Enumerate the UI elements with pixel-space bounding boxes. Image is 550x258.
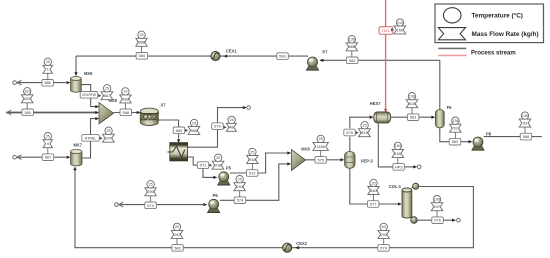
arrowhead into COL-1 <box>398 202 402 205</box>
svg-text:292: 292 <box>174 233 180 237</box>
svg-text:584: 584 <box>139 53 146 58</box>
svg-text:580: 580 <box>452 139 459 144</box>
wire F6 vapor riser x=440 <box>439 60 441 110</box>
arrowhead into MX7 bottom <box>73 166 76 170</box>
svg-text:HEX7: HEX7 <box>370 101 381 106</box>
stream box HP3 <box>393 164 405 171</box>
svg-text:247: 247 <box>434 205 440 209</box>
arrowhead into MX6 top <box>74 72 77 76</box>
svg-text:25: 25 <box>105 87 109 91</box>
wire top recycle left segment y=56 <box>76 55 308 57</box>
arrowhead stream 576 exit <box>452 219 456 222</box>
svg-text:918: 918 <box>215 164 221 168</box>
svg-text:MX6: MX6 <box>84 71 93 76</box>
wire COL-1 distillate recycle <box>75 170 473 248</box>
arrowhead into HEX7 <box>370 116 374 119</box>
wire SEP-3 bottoms stream 577 <box>350 168 399 204</box>
stream box 586 product <box>520 133 532 140</box>
stream box 587 <box>42 154 54 161</box>
legend process stream line <box>438 47 466 49</box>
svg-text:P5: P5 <box>226 166 232 171</box>
svg-text:25: 25 <box>139 33 143 37</box>
svg-text:150: 150 <box>397 28 403 32</box>
arrowhead into MX8 input 3 <box>95 117 99 120</box>
svg-text:1188: 1188 <box>317 145 325 149</box>
svg-text:819: 819 <box>361 131 367 135</box>
svg-text:540: 540 <box>370 189 376 193</box>
indicator stream 589 (25 C, 966 kg/h) <box>185 119 200 134</box>
indicator stream 579 (25 C, 48 kg/h) <box>224 116 237 131</box>
svg-text:579: 579 <box>380 245 387 250</box>
stream box 589 <box>173 127 185 134</box>
svg-text:25: 25 <box>238 178 242 182</box>
indicator stream 575 (25 C, 1188 kg/h) <box>313 135 329 156</box>
open arrowhead at feed 586 origin <box>17 80 21 85</box>
stream box 579 <box>212 123 224 130</box>
stream box 578 <box>344 129 356 136</box>
svg-text:25: 25 <box>107 129 111 133</box>
indicator stream 585 (102 C, 102 kg/h) <box>21 88 33 109</box>
svg-text:CEX2: CEX2 <box>296 241 307 246</box>
legend energy stream line <box>438 54 466 56</box>
svg-text:10: 10 <box>123 90 127 94</box>
arrowhead into pump P7 <box>320 59 324 62</box>
cooler CEX1 <box>211 52 220 61</box>
arrowhead into MX9 input 2 <box>287 162 291 165</box>
wire MX6 outlet to CRLRFW <box>81 85 90 92</box>
svg-text:136: 136 <box>409 95 415 99</box>
svg-text:581: 581 <box>410 115 417 120</box>
indicator stream 588 (10 C, 988 kg/h) <box>120 88 132 109</box>
stream box 580 <box>449 138 461 145</box>
svg-text:294: 294 <box>237 185 243 189</box>
svg-text:582: 582 <box>349 58 356 63</box>
svg-text:48: 48 <box>229 126 233 130</box>
indicator stream 572 (25 C, 918 kg/h) <box>247 148 258 169</box>
flash drum F6 <box>435 110 444 128</box>
indicator stream 581 (136 C, 819 kg/h) <box>406 93 418 114</box>
arrowhead into MX7 left <box>67 156 71 159</box>
wire MX9 outlet stream 575 <box>306 159 341 161</box>
svg-text:25: 25 <box>46 60 50 64</box>
svg-text:P7: P7 <box>323 49 329 54</box>
arrowhead into heater HX top <box>177 139 180 143</box>
svg-text:213: 213 <box>397 21 403 25</box>
svg-text:571: 571 <box>200 163 207 168</box>
heat exchanger HEX7 <box>374 112 391 123</box>
svg-text:HP3: HP3 <box>395 164 403 169</box>
indicator stream 577 (25 C, 540 kg/h) <box>368 179 379 200</box>
svg-text:MX9: MX9 <box>301 147 310 152</box>
arrowhead into reactor X7 <box>137 111 141 114</box>
arrowhead into pump P8 <box>469 140 473 143</box>
svg-text:988: 988 <box>122 97 128 101</box>
mixer MX9 <box>292 150 306 171</box>
svg-text:136: 136 <box>522 114 528 118</box>
indicator stream 586 (25 C, 1 kg/h) <box>43 58 53 79</box>
cooler CEX2 <box>283 243 292 252</box>
svg-text:583: 583 <box>279 54 286 59</box>
stream box 584 <box>136 53 148 60</box>
vessel MX6 <box>71 77 82 93</box>
open arrowhead at feed 587 origin <box>17 155 21 160</box>
svg-text:SEP-3: SEP-3 <box>361 158 374 163</box>
arrowhead into pump P6 <box>203 203 207 206</box>
stream box 585 <box>22 109 34 116</box>
arrowhead into SEP-3 <box>340 158 344 161</box>
arrowhead into MX9 input 1 <box>287 151 291 154</box>
svg-text:576: 576 <box>434 218 441 223</box>
wire HEX7 outlet stream 581 <box>391 116 432 118</box>
arrowhead energy into HEX7 <box>384 109 387 113</box>
svg-text:586: 586 <box>523 134 530 139</box>
svg-text:575: 575 <box>317 157 324 162</box>
reactor X7 <box>140 108 158 125</box>
exit node circle stream 579 <box>247 106 251 110</box>
svg-text:CEX1: CEX1 <box>226 48 237 53</box>
stream box RTRNL <box>82 135 100 142</box>
wire SEP-3 overhead to box 578 <box>349 137 351 152</box>
stream box 583 <box>277 53 289 60</box>
svg-text:Temperature (°C): Temperature (°C) <box>472 12 523 20</box>
svg-text:102: 102 <box>24 97 30 101</box>
open arrowhead at feed 585 left end <box>7 110 11 115</box>
indicator stream 580 recycle (25 C, 292 kg/h) <box>171 223 183 244</box>
svg-text:53: 53 <box>523 122 527 126</box>
svg-text:HX1: HX1 <box>382 28 390 33</box>
arrowhead into MX6 left <box>67 81 71 84</box>
indicator stream 587 (25 C, 4 kg/h) <box>43 133 53 154</box>
svg-text:25: 25 <box>175 225 179 229</box>
stream box 582 <box>346 57 358 64</box>
mixer MX8 <box>99 103 114 124</box>
feed node circle stream 586 <box>13 81 17 85</box>
svg-text:966: 966 <box>191 129 197 133</box>
svg-text:588: 588 <box>123 110 130 115</box>
svg-text:587: 587 <box>45 155 52 160</box>
svg-text:184: 184 <box>395 144 401 148</box>
svg-text:574: 574 <box>237 198 244 203</box>
svg-text:F6: F6 <box>447 105 453 110</box>
wire P8 outlet stream 586b <box>484 136 542 138</box>
svg-text:585: 585 <box>24 110 31 115</box>
svg-text:1: 1 <box>47 68 49 72</box>
svg-text:136: 136 <box>452 119 458 123</box>
wire F6 liquid stream 580 <box>440 128 469 142</box>
wire 578 to HEX7 inlet <box>350 117 370 128</box>
svg-text:589: 589 <box>176 128 183 133</box>
svg-text:53: 53 <box>453 127 457 131</box>
wire heater vapor stream 579 <box>188 108 244 148</box>
arrowhead into cooler CEX1 <box>223 54 227 57</box>
svg-text:COL-1: COL-1 <box>389 184 402 189</box>
arrowhead HP3 exit <box>413 165 417 168</box>
stream box 586 <box>42 80 54 87</box>
wire 571 down to pump P5 <box>203 168 214 177</box>
wire X7 outlet stream 589 <box>158 120 178 127</box>
svg-text:109: 109 <box>434 198 440 202</box>
wire COL-1 bottoms stream 576 <box>417 219 454 221</box>
svg-text:580: 580 <box>174 245 181 250</box>
stream box 588 <box>120 109 132 116</box>
pump P8 <box>472 137 484 150</box>
svg-text:292: 292 <box>381 233 387 237</box>
stream box 580 recycle <box>172 245 184 252</box>
separator SEP-3 tray lines <box>345 157 355 163</box>
wire HP3 to exit <box>404 166 415 168</box>
indicator stream 579 recycle (60 C, 292 kg/h) <box>378 223 390 244</box>
svg-text:P8: P8 <box>486 132 492 137</box>
svg-text:25: 25 <box>319 137 323 141</box>
wire drop into MX6 top <box>75 56 77 72</box>
pump P6 <box>208 199 220 212</box>
svg-text:4: 4 <box>47 142 49 146</box>
wire HEX7 vapor to HP3 <box>378 124 393 167</box>
stream box 576 <box>432 217 444 224</box>
vessel MX7 <box>71 150 83 166</box>
wire stream 573 / P6 inlet y=204.6 <box>118 204 203 206</box>
indicator stream HP3 (184 C, 150 kg/h) <box>392 142 404 163</box>
exit node circle stream HP3 <box>417 165 421 169</box>
svg-text:250: 250 <box>147 190 153 194</box>
wire MX8 outlet stream 588 <box>114 112 138 114</box>
stream box 574 <box>234 197 246 204</box>
svg-text:150: 150 <box>395 152 401 156</box>
arrowhead into flash F6 <box>431 116 435 119</box>
wire RTRNL to MX8 bottom input <box>91 119 96 135</box>
indicator stream 576 (109 C, 247 kg/h) <box>431 196 443 217</box>
svg-text:25: 25 <box>230 118 234 122</box>
indicator stream 574 (25 C, 294 kg/h) <box>234 176 246 197</box>
exit node circle stream 573 <box>115 203 119 207</box>
svg-text:Mass Flow Rate (kg/h): Mass Flow Rate (kg/h) <box>472 31 539 38</box>
open arrowhead stream 573 exit <box>119 202 123 207</box>
indicator stream 586b (136 C, 53 kg/h) <box>519 112 531 133</box>
svg-text:667: 667 <box>104 94 110 98</box>
wire feed 587 into MX7 <box>16 156 66 158</box>
indicator stream RTRNL (25 C, 297 kg/h) <box>100 127 115 142</box>
svg-text:25: 25 <box>371 181 375 185</box>
svg-text:P6: P6 <box>213 193 219 198</box>
exit node circle stream 576 <box>457 218 461 222</box>
svg-text:572: 572 <box>249 170 256 175</box>
stream box 571 <box>197 162 209 169</box>
svg-text:588: 588 <box>138 41 144 45</box>
indicator stream 582 (136 C, 588 kg/h) <box>346 36 358 57</box>
arrowhead into CEX2 <box>295 246 299 249</box>
energy stream HX1 red line <box>385 0 387 109</box>
wire MX7 outlet to RTRNL <box>82 141 91 158</box>
pump P7 <box>306 57 318 70</box>
svg-text:918: 918 <box>249 158 255 162</box>
legend frame <box>435 4 544 43</box>
arrowhead into MX8 input 1 <box>95 105 99 108</box>
svg-text:578: 578 <box>346 130 353 135</box>
column COL-1 reboiler <box>411 217 418 224</box>
arrowhead stream 579 exit <box>243 106 247 109</box>
column COL-1 <box>402 188 412 218</box>
indicator stream 571 (25 C, 918 kg/h) <box>209 154 224 169</box>
stream box 581 <box>407 114 419 121</box>
heater block <box>168 143 188 161</box>
svg-text:25: 25 <box>46 135 50 139</box>
arrowhead into pump P5 <box>213 176 217 179</box>
svg-text:Process stream: Process stream <box>471 51 516 57</box>
indicator stream CRLRFW (25 C, 667 kg/h) <box>98 85 113 100</box>
indicator energy HX1 (213 C, 150 kg/h) <box>391 19 406 34</box>
wire heater liquid to box 571 <box>188 157 198 165</box>
stream box CRLRFW <box>80 92 98 99</box>
svg-text:586: 586 <box>44 80 51 85</box>
svg-text:579: 579 <box>214 124 221 129</box>
svg-text:25: 25 <box>363 124 367 128</box>
svg-text:25: 25 <box>250 150 254 154</box>
svg-text:25: 25 <box>192 121 196 125</box>
svg-text:CRLRFW: CRLRFW <box>82 93 97 97</box>
svg-text:577: 577 <box>370 201 377 206</box>
wire feed 585 main line y=112.5 <box>6 112 96 114</box>
svg-text:588: 588 <box>349 45 355 49</box>
svg-text:25: 25 <box>149 183 153 187</box>
indicator stream 573 (25 C, 250 kg/h) <box>145 181 157 202</box>
legend mass flow symbol <box>438 28 465 40</box>
indicator stream 584 (25 C, 588 kg/h) <box>136 31 147 52</box>
svg-text:573: 573 <box>147 203 154 208</box>
pump P5 <box>218 172 230 185</box>
wire CRLRFW to MX8 top input <box>91 98 96 107</box>
wire P5 outlet stream 572 <box>230 153 288 173</box>
wire feed 586 into MX6 <box>16 82 66 84</box>
stream box 575 <box>315 157 327 164</box>
feed node circle stream 587 <box>13 155 17 159</box>
wire P6 outlet stream 574 <box>220 164 288 200</box>
svg-text:60: 60 <box>382 225 386 229</box>
svg-text:102: 102 <box>24 90 30 94</box>
legend temperature symbol <box>443 8 461 23</box>
svg-text:X7: X7 <box>161 103 167 108</box>
energy stream box HX1 <box>379 27 393 34</box>
separator SEP-3 <box>345 152 355 169</box>
stream box 573 <box>145 202 157 209</box>
svg-text:297: 297 <box>105 137 111 141</box>
svg-text:819: 819 <box>409 102 415 106</box>
stream box 572 <box>246 170 258 177</box>
stream box 579 recycle <box>378 245 390 252</box>
column COL-1 condenser <box>412 183 419 189</box>
arrowhead into MX8 input 2 <box>95 111 99 114</box>
svg-text:RTRNL: RTRNL <box>85 136 96 140</box>
svg-text:136: 136 <box>349 38 355 42</box>
wire top recycle right segment y=60 <box>320 59 440 61</box>
indicator stream 580 (136 C, 53 kg/h) <box>450 117 462 138</box>
svg-text:MX7: MX7 <box>74 143 83 148</box>
wire 589 into heater <box>178 134 180 139</box>
stream box 577 <box>367 201 379 208</box>
indicator stream 578 (25 C, 819 kg/h) <box>356 122 371 137</box>
svg-text:25: 25 <box>216 156 220 160</box>
